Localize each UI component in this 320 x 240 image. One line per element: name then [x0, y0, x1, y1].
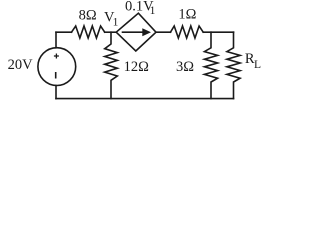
- svg-text:12Ω: 12Ω: [124, 59, 150, 75]
- svg-text:20V: 20V: [8, 57, 33, 73]
- svg-text:1: 1: [150, 5, 156, 17]
- svg-text:8Ω: 8Ω: [79, 8, 97, 24]
- svg-text:1Ω: 1Ω: [178, 7, 196, 23]
- svg-text:3Ω: 3Ω: [176, 59, 194, 75]
- svg-text:1: 1: [113, 16, 119, 28]
- svg-text:L: L: [254, 59, 261, 71]
